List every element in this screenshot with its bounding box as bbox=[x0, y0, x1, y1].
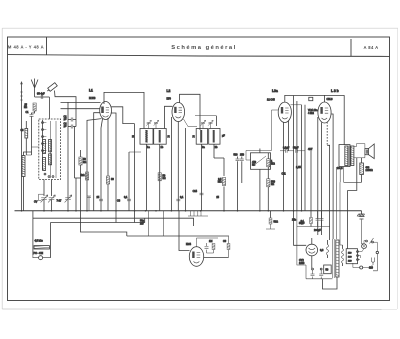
IF2 connections down bbox=[202, 144, 215, 211]
svg-text:CBL6: CBL6 bbox=[327, 98, 334, 101]
svg-text:kΩ: kΩ bbox=[163, 177, 166, 180]
AVC long vertical bbox=[134, 124, 136, 223]
svg-text:L1: L1 bbox=[89, 89, 93, 93]
detector load column bbox=[214, 158, 226, 211]
wire L2 cathode to bus bbox=[177, 122, 179, 211]
svg-text:500: 500 bbox=[234, 154, 239, 157]
svg-text:130: 130 bbox=[348, 257, 352, 259]
mains plug bbox=[359, 251, 379, 270]
wire plug to oscillator trimmers bbox=[55, 91, 77, 127]
anode loop tube L1 to IF1 bbox=[104, 92, 144, 128]
interstage verticals bbox=[293, 96, 295, 211]
svg-text:50Ω: 50Ω bbox=[274, 221, 279, 224]
grid wire tube L1 to AVC column bbox=[111, 107, 134, 124]
L3a bottom wires bbox=[284, 121, 289, 211]
svg-text:Fi: Fi bbox=[132, 136, 134, 139]
svg-text:30: 30 bbox=[111, 178, 114, 181]
coil box (dashed) bbox=[39, 119, 61, 180]
wires bus to heater line bbox=[149, 211, 164, 236]
field coil bbox=[360, 163, 373, 175]
screen resistor column bbox=[185, 128, 187, 211]
variable capacitor CV2 bbox=[48, 195, 55, 203]
transformer core bbox=[333, 239, 335, 278]
resistor at box right bbox=[267, 159, 270, 167]
svg-text:2b: 2b bbox=[215, 146, 218, 149]
svg-text:7-27: 7-27 bbox=[57, 200, 62, 203]
svg-text:05-4pF: 05-4pF bbox=[37, 93, 45, 96]
border frame bbox=[8, 37, 390, 301]
IF2 grid wire to detector bbox=[195, 115, 216, 117]
tube L2 bottom wires bbox=[170, 117, 172, 211]
capacitor near bus left bbox=[87, 196, 91, 211]
PU pickup input bbox=[33, 211, 51, 260]
svg-text:110: 110 bbox=[348, 253, 352, 255]
svg-text:6,3: 6,3 bbox=[320, 249, 324, 252]
wire plug down bbox=[48, 97, 50, 119]
cap C1 bbox=[30, 115, 34, 117]
HT winding bbox=[341, 245, 343, 266]
wires below coil box to tuning caps bbox=[44, 180, 52, 197]
svg-text:Fi: Fi bbox=[168, 136, 170, 139]
svg-text:250: 250 bbox=[240, 154, 245, 157]
svg-text:1b: 1b bbox=[161, 146, 164, 149]
svg-text:2×LB: 2×LB bbox=[337, 167, 343, 170]
below-bus right components bbox=[266, 151, 330, 232]
tube L2 anode loop to IF2 bbox=[180, 94, 201, 130]
magic eye tube EM4 bbox=[149, 211, 218, 266]
primary winding bbox=[336, 240, 339, 277]
IF1 trimmers bbox=[146, 120, 151, 125]
transformer sec to speaker bbox=[354, 144, 365, 158]
caps/res row to AF grid bbox=[280, 147, 313, 176]
svg-text:EF9: EF9 bbox=[167, 98, 172, 101]
svg-text:1883: 1883 bbox=[299, 262, 305, 265]
resistor box psu bbox=[324, 265, 332, 274]
long feeds to PSU bbox=[294, 211, 307, 265]
psu bottom loop bbox=[323, 277, 338, 289]
svg-text:2×8µF: 2×8µF bbox=[314, 229, 321, 232]
svg-text:PO - OM: PO - OM bbox=[34, 252, 43, 255]
svg-text:EM4: EM4 bbox=[186, 243, 192, 246]
IF2 transformer secondary bbox=[209, 129, 220, 145]
svg-text:0,1: 0,1 bbox=[180, 196, 184, 199]
voltage selector box bbox=[346, 249, 358, 264]
svg-text:C11: C11 bbox=[282, 173, 287, 176]
left resistor column bbox=[20, 121, 27, 155]
wire eye output bbox=[204, 257, 229, 259]
coil windings inside box bbox=[43, 140, 52, 171]
wire CV jog bbox=[39, 194, 45, 200]
heater winding bbox=[320, 240, 329, 258]
wires field coil leads bbox=[361, 158, 363, 183]
svg-text:0,1: 0,1 bbox=[124, 196, 128, 199]
stubs below bus to heater line bbox=[140, 196, 220, 226]
svg-text:25: 25 bbox=[97, 196, 100, 199]
svg-text:pF: pF bbox=[64, 118, 67, 121]
wire to HT winding bbox=[340, 182, 343, 245]
wire L1 grid return bbox=[94, 113, 100, 211]
output transformer bbox=[339, 145, 354, 167]
antenna coil (tall hatched) bbox=[22, 152, 32, 211]
wire L3a top to L3b top bbox=[285, 95, 344, 102]
svg-text:1,25: 1,25 bbox=[296, 166, 301, 169]
svg-text:L 3 b: L 3 b bbox=[331, 89, 339, 93]
svg-text:220: 220 bbox=[348, 261, 352, 263]
osc variable cap bbox=[65, 195, 72, 203]
plug (tilted) bbox=[46, 83, 57, 93]
wire grid to L3a bbox=[272, 110, 279, 151]
grid wires coil box to tube L1 bbox=[61, 102, 101, 104]
svg-text:kΩ: kΩ bbox=[271, 183, 274, 186]
capacitor 05-4pF bbox=[41, 95, 43, 99]
svg-text:kΩ: kΩ bbox=[24, 106, 27, 109]
svg-text:0,1µF: 0,1µF bbox=[283, 147, 290, 150]
svg-text:50µF: 50µF bbox=[299, 222, 305, 225]
wire mains terminal down bbox=[373, 254, 377, 271]
wires L3b to PSU bbox=[327, 114, 333, 240]
svg-text:Fi: Fi bbox=[193, 136, 195, 139]
wires tuning caps to bus bbox=[44, 200, 52, 211]
AVC return nest below bus bbox=[33, 211, 229, 236]
svg-text:C1: C1 bbox=[25, 111, 29, 114]
svg-text:CV: CV bbox=[34, 201, 38, 204]
svg-text:ECH3: ECH3 bbox=[89, 97, 96, 100]
pilot lamp bbox=[362, 244, 367, 249]
svg-text:kΩ: kΩ bbox=[83, 161, 86, 164]
svg-text:MΩ: MΩ bbox=[271, 163, 275, 166]
svg-text:M 48 A - Y 48 A: M 48 A - Y 48 A bbox=[8, 45, 44, 50]
svg-text:kΩ: kΩ bbox=[252, 164, 255, 167]
wire resistor to C1 bbox=[32, 111, 35, 114]
svg-text:µF: µF bbox=[222, 135, 225, 138]
svg-text:25n: 25n bbox=[292, 219, 297, 222]
wire ground to lamp bbox=[362, 220, 364, 244]
antenna column resistor 25k bbox=[33, 103, 36, 111]
wire IF2 grid drop bbox=[215, 116, 217, 126]
junction dots on bus bbox=[21, 210, 303, 212]
wire antenna to plug bbox=[35, 96, 50, 98]
resistor below bbox=[267, 179, 270, 187]
wires transformer primary feeds bbox=[336, 167, 340, 239]
svg-text:1a: 1a bbox=[147, 146, 150, 149]
tube L3a (EBF2) bbox=[278, 102, 291, 122]
small component top bbox=[309, 97, 313, 100]
dashed cathode line L3b bbox=[326, 122, 328, 145]
IF2 trimmers bbox=[201, 120, 206, 125]
IF2 transformer primary bbox=[196, 129, 207, 145]
speaker bbox=[365, 144, 374, 159]
magic eye components bbox=[204, 236, 230, 258]
filter caps bbox=[306, 256, 333, 279]
osc padder column bbox=[75, 178, 77, 211]
svg-text:A 84 A: A 84 A bbox=[363, 45, 378, 50]
wire L1 cathode to R column bbox=[87, 119, 102, 211]
svg-text:4Ω7: 4Ω7 bbox=[308, 148, 313, 151]
wire tube L1 right long vertical bbox=[111, 113, 116, 223]
earth lead wire bbox=[20, 81, 23, 211]
switch contacts box bottom bbox=[44, 173, 46, 175]
IF1 sec to L2 grid bbox=[165, 106, 173, 128]
tube L1 cathode wires down bbox=[101, 118, 108, 140]
oscillator trimmer column bbox=[63, 102, 86, 211]
svg-text:2W: 2W bbox=[140, 223, 144, 226]
wire C1 down bbox=[31, 116, 33, 155]
L3b bottom/side wires bbox=[318, 117, 322, 235]
tube L2 (EF9) bbox=[172, 103, 185, 122]
main chassis bus bbox=[15, 210, 362, 212]
IF1 connections down bbox=[147, 144, 160, 211]
tube L3b (CBL6) bbox=[318, 102, 331, 123]
rectifier tube CY2 bbox=[299, 238, 318, 265]
svg-text:C14: C14 bbox=[193, 190, 198, 193]
tube L1 (ECH3) bbox=[100, 102, 112, 120]
svg-text:pF: pF bbox=[64, 125, 67, 128]
IF1 transformer primary bbox=[140, 129, 153, 145]
svg-text:4,5 kΩs: 4,5 kΩs bbox=[35, 240, 44, 243]
svg-text:L3a: L3a bbox=[272, 89, 278, 93]
wire cathode column bbox=[305, 265, 307, 279]
svg-text:1250Ω: 1250Ω bbox=[366, 169, 373, 172]
svg-text:25: 25 bbox=[216, 196, 219, 199]
svg-text:C3: C3 bbox=[20, 129, 24, 132]
antenna bbox=[31, 79, 38, 98]
wave switch contacts inside box bbox=[42, 120, 47, 170]
box internal verticals bbox=[51, 121, 57, 178]
IF1 transformer secondary bbox=[154, 129, 167, 145]
svg-text:Schéma général: Schéma général bbox=[171, 45, 236, 51]
svg-text:C8: C8 bbox=[117, 200, 121, 203]
cathode columns mid section bbox=[80, 128, 141, 211]
terminal bbox=[360, 266, 363, 269]
wire to box at 147 bbox=[32, 146, 39, 148]
volume pot box bbox=[251, 149, 271, 211]
svg-text:110: 110 bbox=[369, 267, 373, 270]
svg-text:C9: C9 bbox=[223, 240, 227, 243]
variable capacitor CV1 bbox=[41, 195, 48, 203]
mains switch bbox=[359, 238, 378, 252]
chassis ground right bbox=[357, 211, 364, 244]
svg-text:12 C45: 12 C45 bbox=[267, 99, 275, 102]
speaker return wire bbox=[348, 158, 357, 249]
svg-text:2a: 2a bbox=[202, 146, 205, 149]
svg-text:50pF: 50pF bbox=[293, 147, 299, 150]
svg-text:50: 50 bbox=[326, 269, 329, 272]
wire column x129 bbox=[128, 152, 130, 211]
svg-text:1kΩ: 1kΩ bbox=[80, 174, 85, 177]
field coil return bbox=[344, 167, 362, 183]
svg-text:1M: 1M bbox=[209, 240, 212, 243]
AF coupling caps bbox=[234, 154, 245, 211]
anode to output transformer bbox=[343, 95, 345, 144]
svg-text:4 MΩ: 4 MΩ bbox=[308, 112, 314, 115]
svg-text:MΩ: MΩ bbox=[218, 181, 222, 184]
svg-text:L2: L2 bbox=[167, 89, 171, 93]
wire pot to L3a grid bbox=[246, 151, 272, 161]
